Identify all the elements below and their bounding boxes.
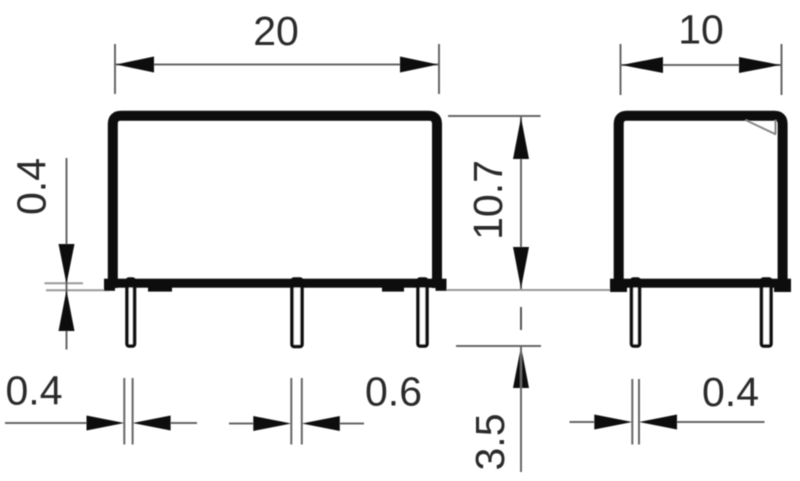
front view bottom-right corner tab (436, 287, 447, 291)
dim 0.4 left pin: right extension line (132, 378, 134, 445)
svg-text:0.4: 0.4 (9, 158, 55, 215)
dim 0.4 left pin: dimension line left segment (5, 422, 87, 424)
dim 10: right extension line (781, 44, 783, 95)
dim 20: right arrow (400, 57, 438, 73)
dim 3.5: pin bottom extension line (456, 345, 541, 347)
dim 0.4 left pin: left-pointing arrow (133, 416, 171, 431)
dim 0.4 side pin: left extension line (631, 379, 633, 445)
svg-text:3.5: 3.5 (467, 414, 513, 471)
dim 10: left extension line (620, 44, 622, 95)
dim 0.6 center pin: dimension line left segment (229, 423, 253, 425)
dim 0.4 side pin: dimension line left segment (570, 421, 595, 423)
side view left foot (610, 287, 627, 292)
front view pin 2 (center) (292, 279, 302, 347)
dim 10.7: dimension line (520, 117, 522, 289)
dim 0.4 left pin: dimension line right segment (171, 422, 197, 424)
dim 10.7: down arrow (513, 247, 529, 289)
front view case bottom bar (104, 279, 447, 288)
front view case outline (113, 116, 437, 288)
dim 0.4 left pin: right-pointing arrow (87, 416, 125, 431)
dim 0.6 center pin: dimension line right segment (340, 423, 364, 425)
side view right foot (774, 287, 791, 292)
dim 3.5: up arrow (513, 347, 529, 389)
dim 0.4 side pin: left-pointing arrow (639, 415, 677, 430)
front view bottom-left corner tab (104, 287, 115, 291)
dim 0.4 side pin: right-pointing arrow (594, 415, 632, 430)
dim 10.7: up arrow (513, 118, 529, 160)
dim 10: left arrow (622, 57, 664, 73)
svg-text:10.7: 10.7 (465, 160, 511, 240)
side view pin left (632, 279, 640, 346)
side view corner chamfer mark (746, 120, 777, 135)
dim 0.6 center pin: right-pointing arrow (253, 416, 291, 431)
dim 0.4 left pin: left extension line (123, 378, 125, 445)
dim 10: dimension line (621, 64, 782, 66)
dim 0.4 side pin: dimension line right segment (677, 421, 765, 423)
dim 0.4 standoff: down arrow (59, 244, 75, 284)
svg-text:0.6: 0.6 (365, 369, 422, 415)
dim 0.6 center pin: left extension line (290, 378, 292, 445)
side view pin right (762, 279, 772, 346)
dim 0.4 side pin: right extension line (638, 379, 640, 445)
seating plane line left (46, 289, 110, 291)
svg-text:10: 10 (678, 7, 724, 53)
seating plane line between views (443, 289, 616, 291)
svg-text:20: 20 (253, 8, 299, 54)
svg-text:0.4: 0.4 (6, 368, 63, 414)
side view case outline (619, 116, 783, 288)
dim 3.5: dash segment (520, 307, 522, 330)
case bottom extension line left (45, 282, 84, 284)
dim 20: dimension line (115, 64, 439, 66)
svg-text:0.4: 0.4 (702, 369, 759, 415)
dim 0.4 standoff: dimension line (66, 158, 68, 350)
dim 0.4 standoff: up arrow (59, 290, 75, 331)
dim 20: right extension line (438, 44, 440, 94)
dim 20: left arrow (116, 57, 154, 73)
dim 10.7: top extension line (448, 115, 541, 117)
front view right standoff foot (382, 287, 404, 292)
front view pin 3 (right) (418, 279, 427, 346)
dim 3.5: dimension line (520, 347, 522, 473)
dim 10: right arrow (739, 57, 781, 73)
dim 20: left extension line (114, 44, 116, 94)
side view case bottom bar (610, 279, 791, 288)
dim 0.6 center pin: left-pointing arrow (302, 416, 340, 431)
front view pin 1 (left) (127, 279, 135, 346)
dim 0.6 center pin: right extension line (301, 378, 303, 445)
front view left standoff foot (148, 287, 172, 292)
